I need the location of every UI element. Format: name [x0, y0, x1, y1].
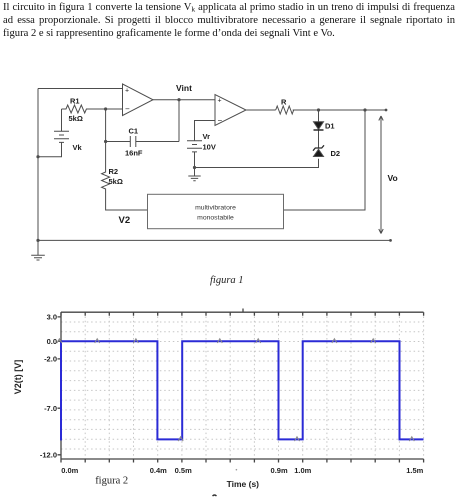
chart grid: horizontal dotted lines — [61, 322, 424, 449]
label: op-amp U1 plus — [125, 87, 129, 94]
ground: bottom left — [31, 240, 45, 260]
chart axis: top border — [61, 311, 424, 313]
axis title V2(t) [V] — [13, 360, 23, 395]
ground under Vr — [188, 168, 200, 181]
wire: feedback from box output up to top wire — [284, 110, 366, 210]
label R2 — [109, 167, 119, 176]
label Vint — [176, 83, 192, 93]
svg-text:1.5m: 1.5m — [406, 466, 423, 475]
chart ticks: left — [58, 317, 62, 455]
wire: bottom ground rail — [38, 239, 391, 241]
label R1 — [70, 97, 80, 106]
wire: inverting node down to R2 — [105, 109, 107, 168]
node: Vk bottom to left rail junction — [36, 155, 39, 158]
chart axis: bottom axis — [61, 458, 424, 460]
label Vo — [388, 173, 398, 183]
node: bottom rail left junction — [36, 239, 39, 242]
chart ticks: top — [61, 309, 424, 316]
label 5kOhm (R1) — [69, 114, 83, 123]
label Vr — [203, 132, 211, 141]
op-amp U2 — [215, 95, 246, 126]
chart axis: left axis — [60, 312, 62, 459]
label V2 — [119, 215, 131, 226]
y tick label -7.0 — [44, 404, 57, 413]
caption figura 1 — [210, 275, 244, 286]
stray dot near x labels — [236, 469, 238, 471]
node: Vint junction — [177, 98, 180, 101]
node: top right endpoint — [385, 109, 388, 112]
diode D2 (zener) — [313, 145, 324, 156]
svg-text:Time (s): Time (s) — [227, 479, 260, 489]
chart grid: vertical dotted lines — [85, 312, 423, 459]
svg-text:V2(t) [V]: V2(t) [V] — [13, 360, 23, 395]
trace markers — [57, 339, 414, 441]
wire: ground rail to D2 anode — [195, 159, 319, 168]
label C1 — [129, 127, 139, 136]
x tick label 1.5m — [406, 466, 423, 475]
page-bottom artifact mark — [213, 495, 217, 496]
wire: U2 - input to Vr battery — [195, 121, 216, 141]
wire: C1 right up to Vint node — [178, 100, 180, 142]
svg-text:3.0: 3.0 — [47, 313, 57, 322]
node: inverting input junction — [104, 107, 107, 110]
wire: op-amp U2 output to resistor R — [246, 109, 276, 111]
svg-text:0.9m: 0.9m — [271, 466, 288, 475]
axis title Time (s) — [227, 479, 260, 489]
wire: op-amp U1 output to op-amp U2 + input — [153, 99, 215, 101]
svg-text:-7.0: -7.0 — [44, 404, 57, 413]
node: Vr ground junction — [193, 166, 196, 169]
measurement arrow Vo — [379, 116, 383, 234]
diode D1 — [314, 122, 324, 130]
label 5kOhm (R2) — [109, 177, 123, 186]
label R — [281, 98, 287, 107]
y tick label 0.0 — [47, 337, 57, 346]
x tick label 1.0m — [294, 466, 311, 475]
multivibrator box — [148, 194, 284, 228]
y tick label -2.0 — [44, 355, 57, 364]
wire: R1 left lead down to battery Vk — [61, 109, 63, 131]
svg-text:1.0m: 1.0m — [294, 466, 311, 475]
svg-text:figura 2: figura 2 — [95, 476, 128, 487]
label: box text monostabile — [197, 215, 234, 222]
label: op-amp U2 minus — [218, 116, 223, 125]
problem statement paragraph — [3, 1, 455, 40]
caption figura 2 — [95, 476, 128, 487]
node: D1 top junction — [317, 108, 320, 111]
node: bottom rail right endpoint — [389, 239, 392, 242]
label D1 — [325, 122, 335, 131]
resistor R1 — [62, 105, 106, 113]
x tick label 0.9m — [271, 466, 288, 475]
wire: R2 bottom to monostable box input — [106, 193, 148, 210]
chart ticks: bottom — [61, 459, 424, 463]
x tick label 0.5m — [175, 466, 192, 475]
label: op-amp U2 plus — [218, 97, 222, 104]
label: box text multivibratore — [195, 205, 236, 212]
node: feedback junction — [363, 108, 366, 111]
y tick label -12.0 — [40, 450, 57, 459]
resistor R — [276, 106, 294, 114]
label Vk — [73, 143, 83, 152]
wire: R to right nodes — [293, 109, 386, 111]
x tick label 0.0m — [61, 466, 78, 475]
svg-text:-2.0: -2.0 — [44, 355, 57, 364]
svg-text:0.4m: 0.4m — [150, 466, 167, 475]
wire: top wire to op-amp U1 + input — [38, 88, 123, 90]
node: C1 left junction — [104, 140, 107, 143]
x tick label 0.4m — [150, 466, 167, 475]
svg-text:-12.0: -12.0 — [40, 450, 57, 459]
resistor R2 — [102, 168, 110, 193]
svg-text:0.0m: 0.0m — [61, 466, 78, 475]
op-amp U1 — [123, 84, 154, 116]
label: op-amp U1 minus — [125, 105, 130, 114]
wire: R1 right to op-amp U1 - input — [106, 108, 123, 110]
wire: left ground rail vertical — [37, 89, 39, 241]
wire: D1 to D2 series branch — [318, 110, 320, 148]
svg-text:0.5m: 0.5m — [175, 466, 192, 475]
svg-text:0.0: 0.0 — [47, 337, 57, 346]
y tick label 3.0 — [47, 313, 57, 322]
label 10V — [203, 143, 216, 152]
battery Vr — [187, 141, 202, 168]
label 16nF — [125, 149, 143, 158]
battery Vk — [38, 131, 69, 156]
trace V2(t) square wave — [61, 341, 424, 440]
label D2 — [331, 149, 341, 158]
capacitor C1 — [106, 136, 179, 147]
